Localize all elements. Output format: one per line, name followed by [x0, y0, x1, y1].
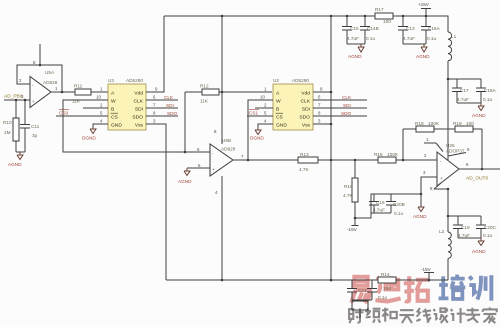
resistor R10 1M (vertical): [3, 100, 19, 152]
U5A pin 8 power stub: [33, 44, 40, 65]
svg-text:C17: C17: [460, 88, 469, 93]
svg-text:U2: U2: [273, 78, 279, 83]
wire: R18 left drop to pin2 node: [402, 129, 404, 160]
svg-text:AD828: AD828: [221, 147, 236, 152]
svg-text:ADOP37: ADOP37: [446, 149, 465, 154]
svg-text:Vdd: Vdd: [301, 91, 310, 97]
resistor R12 11K: [185, 84, 272, 104]
svg-text:-15V: -15V: [347, 227, 358, 232]
svg-text:C14B: C14B: [367, 26, 379, 31]
svg-text:AD828: AD828: [43, 80, 58, 85]
connector box (bottom, under watermark): [352, 301, 368, 318]
resistor R15 100K: [374, 152, 399, 163]
wire: branch to C19/C20C: [448, 215, 481, 217]
U25 pin 3 input to AGND: [421, 170, 437, 207]
U25 pin 1 stub: [424, 137, 443, 152]
svg-text:R19: R19: [453, 121, 462, 126]
ground DGND (U2): [250, 128, 264, 141]
svg-text:R15: R15: [374, 152, 383, 157]
wire: +15V branch from L1 down to op-amp U25 V+ pin: [447, 61, 450, 160]
capacitor C14B 0.1u: [360, 16, 379, 44]
IC U3 AD5290: [108, 78, 146, 130]
wire: L2 to bottom rail corner: [447, 258, 449, 280]
svg-text:CLK: CLK: [342, 95, 352, 100]
svg-text:R13: R13: [300, 152, 309, 157]
svg-text:W: W: [111, 99, 116, 105]
svg-text:AGND: AGND: [472, 113, 486, 118]
ground AGND (C17/C18A): [472, 103, 486, 118]
wire: +15V top rail: [164, 15, 448, 32]
svg-text:0.1u: 0.1u: [366, 36, 376, 41]
svg-text:DGND: DGND: [250, 136, 264, 141]
svg-text:0.1u: 0.1u: [378, 295, 388, 300]
svg-text:100: 100: [466, 121, 474, 126]
wire: U3 GND pin: [93, 124, 108, 127]
svg-text:0.1u: 0.1u: [394, 211, 404, 216]
node AD_PB0 input wire: [4, 94, 30, 102]
svg-text:+: +: [212, 167, 215, 172]
capacitor C11 3p: [20, 100, 40, 152]
wire: V- vertical below op-amp: [447, 189, 450, 232]
wire: C21/C22B common: [352, 299, 372, 301]
svg-text:U5A: U5A: [45, 70, 55, 75]
svg-text:AD5290: AD5290: [126, 78, 143, 83]
svg-text:AGND: AGND: [8, 162, 22, 167]
watermark line 2: shepin he tianxian sheji zhuanjia: [349, 307, 497, 323]
svg-text:C16A: C16A: [428, 26, 441, 31]
svg-text:-15V: -15V: [421, 267, 432, 272]
wire: U3 B pin stub: [83, 107, 108, 109]
U25 pin 8 stub to V-: [430, 183, 449, 191]
svg-text:10: 10: [96, 95, 101, 100]
wire: U2 W pin loop down to U5B output node: [248, 100, 273, 160]
watermark line 1: yidiantuo peixun: [351, 275, 491, 303]
svg-text:R10: R10: [3, 120, 12, 125]
wire: R11 to U3 pin A: [91, 91, 108, 93]
wire: C13/C16A common to ground: [403, 43, 426, 45]
svg-text:C15: C15: [350, 26, 359, 31]
power -15V (below R16): [347, 218, 359, 232]
svg-text:100K: 100K: [387, 152, 399, 157]
node SDO (U2): [313, 111, 367, 116]
svg-text:DGND: DGND: [82, 136, 96, 141]
svg-text:SDO: SDO: [132, 115, 143, 121]
svg-text:C18A: C18A: [484, 88, 497, 93]
svg-text:GND: GND: [276, 123, 287, 129]
IC U2 AD5290: [273, 78, 313, 130]
svg-text:C20B: C20B: [393, 202, 405, 207]
wire: U3 W pin loop down to U5B inverting input: [63, 100, 210, 153]
resistor R18 100K: [403, 121, 455, 132]
node SDI (U3): [146, 103, 178, 108]
svg-text:U3: U3: [108, 78, 114, 83]
wire: R15 to U25 pin 2: [396, 159, 437, 162]
svg-text:4.7uF: 4.7uF: [403, 36, 415, 41]
wire: U2 GND pin: [258, 124, 273, 128]
inductor L2: [439, 229, 451, 258]
wire: U5A feedback loop (out to inverting input): [17, 64, 63, 94]
ground AGND (top-left pair): [348, 44, 364, 59]
resistor R17 (100, in top rail): [375, 7, 393, 24]
ground AGND (top-right pair): [416, 44, 430, 59]
svg-text:11K: 11K: [72, 99, 81, 104]
wire: R10/C11 common: [16, 151, 25, 153]
wire: -15V bottom rail: [166, 279, 448, 282]
resistor R14 100 (in bottom rail): [378, 272, 396, 291]
svg-text:SDI: SDI: [302, 107, 310, 113]
power -15V (bottom right): [421, 267, 434, 280]
svg-text:+: +: [32, 99, 35, 104]
svg-text:SDO: SDO: [299, 115, 310, 121]
capacitor C21 4.7uF (bottom, under watermark): [347, 280, 367, 300]
svg-text:C20C: C20C: [484, 225, 497, 230]
svg-text:AGND: AGND: [348, 54, 362, 59]
svg-text:U25: U25: [446, 143, 455, 148]
svg-text:CS: CS: [111, 115, 119, 121]
wire: long vertical from top rail to bottom rail (x=331): [330, 16, 333, 281]
svg-text:U5B: U5B: [222, 138, 231, 143]
svg-text:C11: C11: [31, 124, 40, 129]
svg-text:AD_OUT0: AD_OUT0: [466, 176, 488, 182]
wire: U5B pin 4 down to bottom rail: [215, 176, 222, 280]
node CS1 (U2 chip select): [247, 110, 273, 117]
svg-text:R14: R14: [381, 272, 390, 277]
wire: C19/C20C common: [458, 237, 481, 239]
svg-text:AGND: AGND: [178, 179, 192, 184]
U3 pin numbers: [96, 87, 158, 124]
capacitor C20B 0.1u: [386, 194, 405, 216]
svg-text:10: 10: [260, 95, 265, 100]
wire: -15V node to C16/C20B loop: [354, 193, 423, 220]
svg-text:R18: R18: [415, 121, 424, 126]
svg-text:0.1u: 0.1u: [483, 233, 493, 238]
wire: U2 Vdd to +15V vertical: [313, 91, 331, 93]
svg-text:+15V: +15V: [418, 2, 430, 7]
capacitor C16 4.7uF: [369, 194, 385, 213]
svg-text:B: B: [276, 107, 279, 113]
svg-text:SDI: SDI: [135, 107, 143, 113]
svg-text:AD_PB0: AD_PB0: [4, 94, 23, 100]
svg-text:AGND: AGND: [416, 54, 430, 59]
svg-text:100: 100: [383, 19, 391, 24]
svg-text:SDI: SDI: [166, 103, 174, 108]
svg-text:100K: 100K: [428, 121, 440, 126]
wire: R13 to R15 node: [318, 159, 378, 162]
svg-text:L2: L2: [439, 229, 445, 234]
svg-text:4.7K: 4.7K: [299, 167, 310, 172]
svg-text:Vss: Vss: [135, 123, 144, 129]
svg-text:CS1: CS1: [249, 111, 259, 116]
capacitor C15 4.7uF: [342, 16, 359, 44]
svg-text:R16: R16: [344, 184, 353, 189]
svg-text:W: W: [276, 99, 281, 105]
svg-text:0.1u: 0.1u: [427, 36, 437, 41]
svg-text:4.7K: 4.7K: [343, 193, 354, 198]
op-amp U25 ADOP37: [437, 143, 465, 186]
node SDO (U3): [146, 111, 178, 116]
ground AGND (input RC): [8, 152, 23, 167]
wire: U5B + input to AGND: [187, 167, 210, 169]
resistor R13 4.7K: [298, 152, 318, 172]
wire: U3 Vdd to top rail: [146, 16, 164, 92]
svg-text:C21: C21: [358, 288, 367, 293]
svg-text:1M: 1M: [4, 130, 11, 135]
ground AGND (C19/C20C): [472, 238, 486, 254]
svg-text:SDI: SDI: [343, 103, 351, 108]
wire: U5A output to R11: [51, 91, 75, 93]
svg-text:3p: 3p: [32, 133, 38, 138]
wire: U3 Vss down to -15V bottom rail: [146, 124, 166, 280]
node CS0 (U3 chip select): [56, 110, 108, 117]
resistor R19 100: [453, 121, 482, 132]
svg-text:GND: GND: [111, 123, 122, 129]
svg-text:C16: C16: [376, 200, 385, 205]
resistor R11 11K: [72, 84, 91, 104]
svg-text:4.7uF: 4.7uF: [373, 208, 385, 213]
ground AGND (U5B): [178, 168, 192, 184]
svg-text:100: 100: [383, 286, 391, 291]
inductor L1: [448, 32, 457, 61]
svg-text:C13: C13: [406, 26, 415, 31]
svg-text:11K: 11K: [200, 99, 209, 104]
svg-text:4.7uF: 4.7uF: [457, 97, 469, 102]
U25 pin 5 stub: [448, 147, 470, 156]
node CLK (U3): [146, 95, 178, 100]
power +15V: [418, 2, 431, 16]
svg-text:4.7uF: 4.7uF: [347, 36, 359, 41]
wire: C16/C20B common: [371, 212, 391, 214]
op-amp U5A AD828: [30, 70, 58, 108]
svg-text:R11: R11: [74, 84, 83, 89]
capacitor C18A 0.1u: [476, 79, 497, 103]
wire: C17/C18A common: [457, 102, 481, 104]
U5A pin numbers 2,3,1: [19, 78, 58, 99]
U2 pin numbers: [260, 87, 323, 124]
wire: U5B output: [233, 159, 298, 162]
wire: feedback right drop to output: [481, 129, 484, 170]
svg-text:C19: C19: [461, 225, 470, 230]
capacitor C13 4.7uF: [398, 16, 415, 44]
svg-text:0.1u: 0.1u: [483, 97, 493, 102]
capacitor C19 4.7uF: [453, 216, 470, 238]
svg-text:+: +: [440, 176, 443, 181]
svg-text:SDO: SDO: [341, 111, 352, 116]
resistor R16 4.7K (vertical): [343, 160, 358, 218]
capacitor C16A 0.1u: [421, 16, 441, 44]
ground DGND (U3): [82, 127, 96, 141]
svg-text:B: B: [111, 107, 114, 113]
node AD_OUT0 output wire: [459, 162, 500, 182]
wire: branch to C17/C18A: [448, 78, 481, 80]
svg-text:CS: CS: [276, 115, 284, 121]
svg-text:AD5290: AD5290: [292, 78, 309, 83]
capacitor C22B 0.1u (bottom, under watermark): [367, 280, 388, 300]
svg-text:AGND: AGND: [472, 249, 486, 254]
op-amp U5B AD828: [197, 138, 244, 176]
svg-text:SDO: SDO: [167, 111, 178, 116]
svg-text:L1: L1: [451, 34, 457, 39]
capacitor C20C 0.1u: [476, 216, 497, 238]
svg-text:Vdd: Vdd: [134, 91, 143, 97]
svg-text:AGND: AGND: [413, 214, 427, 219]
svg-text:Vss: Vss: [302, 123, 311, 129]
svg-text:R12: R12: [200, 84, 209, 89]
wire: U2 Vss to vertical: [313, 123, 331, 125]
svg-text:CLK: CLK: [164, 95, 174, 100]
ground AGND (U25 pin3 / C16 C20B): [413, 207, 427, 219]
svg-text:CLK: CLK: [133, 99, 143, 105]
wire: U2 B pin stub: [255, 107, 273, 109]
node SDI (U2): [313, 103, 367, 108]
node CLK (U2): [313, 95, 367, 100]
wire: R12 left drop to U5B pin 6: [184, 92, 186, 152]
capacitor C17 4.7uF: [452, 79, 469, 103]
svg-text:4.7uF: 4.7uF: [458, 233, 470, 238]
svg-text:CLK: CLK: [300, 99, 310, 105]
svg-text:CS0: CS0: [59, 111, 69, 116]
svg-text:R17: R17: [375, 7, 384, 12]
wire: C15/C14B common to ground: [347, 43, 365, 45]
wire: +15V rail down to U5B pin 8: [214, 16, 222, 144]
